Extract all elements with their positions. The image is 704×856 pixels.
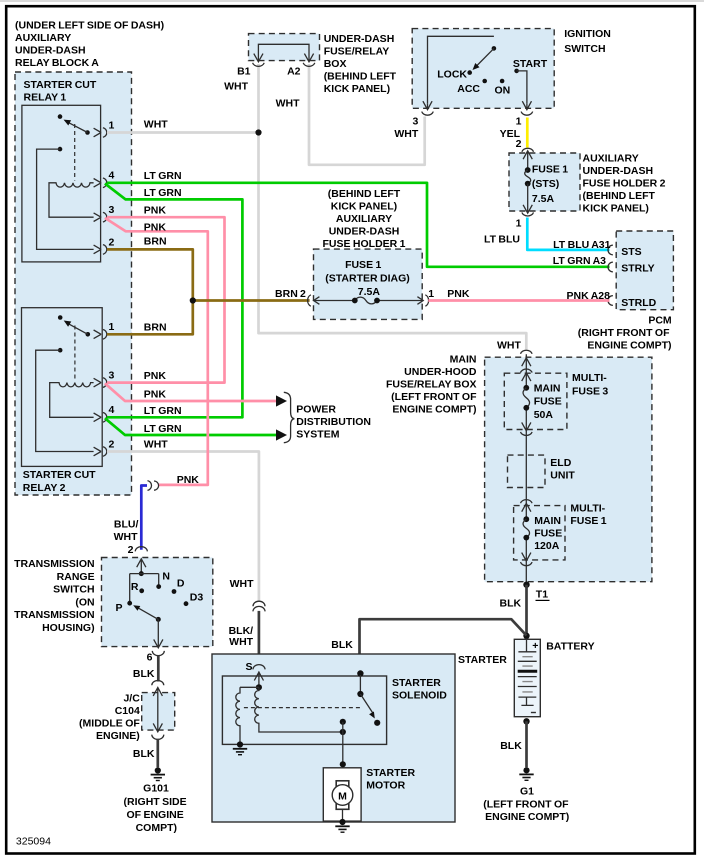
under-dash connector arcs B1 A2 (253, 63, 315, 67)
svg-text:STARTER CUT: STARTER CUT (23, 469, 96, 481)
svg-text:BLK: BLK (500, 598, 522, 610)
svg-text:STARTER: STARTER (366, 767, 415, 779)
PCM pin STRLY arc (608, 262, 613, 272)
transmission contact N (156, 584, 161, 589)
svg-text:PNK: PNK (144, 204, 167, 216)
svg-text:FUSE: FUSE (534, 396, 562, 408)
svg-text:TRANSMISSION: TRANSMISSION (14, 609, 95, 621)
svg-text:STRLD: STRLD (621, 297, 656, 309)
solenoid junction (256, 684, 262, 690)
ignition switch lever (477, 48, 494, 65)
svg-text:MAIN: MAIN (534, 515, 561, 527)
svg-text:BRN: BRN (144, 236, 167, 248)
svg-text:(BEHIND LEFT: (BEHIND LEFT (328, 188, 401, 200)
junction WHT (255, 129, 261, 135)
main fuse 120A symbol (523, 516, 529, 522)
svg-text:LT BLU: LT BLU (484, 233, 520, 245)
multi-fuse 3 entry arc + arrow (521, 369, 533, 381)
relay block A dashed box (15, 72, 132, 495)
svg-text:BRN: BRN (275, 288, 298, 300)
solenoid coil ground (237, 741, 243, 747)
svg-text:SWITCH: SWITCH (564, 43, 605, 55)
transmission contact D (172, 589, 177, 594)
svg-text:3: 3 (109, 370, 115, 382)
svg-text:ON: ON (495, 85, 511, 97)
fuse holder 2 exit arc (522, 212, 534, 216)
wire BLK/WHT connector to starter S (258, 611, 261, 665)
solenoid switch lever (360, 694, 372, 713)
starter motor brushes (336, 781, 349, 787)
transmission switch entry arrow (137, 559, 146, 574)
under-dash box arrows B1 A2 (254, 54, 314, 62)
svg-text:(RIGHT SIDE: (RIGHT SIDE (124, 796, 187, 808)
power distribution arrow LT GRN (276, 429, 287, 440)
relay K1 pin 2 (94, 245, 107, 255)
svg-text:STS: STS (621, 246, 641, 258)
wire BLK transmission to J/C (157, 656, 160, 682)
relay K2 mechanical link (74, 326, 76, 381)
svg-text:A2: A2 (287, 66, 301, 78)
fuse 1 (STS) 7.5A symbol (523, 151, 532, 170)
svg-text:ENGINE COMPT): ENGINE COMPT) (392, 404, 476, 416)
transmission switch common node (139, 571, 144, 576)
main fuse 50A symbol (523, 385, 529, 391)
svg-text:LT GRN: LT GRN (144, 405, 182, 417)
svg-text:G1: G1 (520, 786, 534, 798)
battery bottom junction (523, 718, 529, 724)
svg-text:J/C: J/C (123, 693, 140, 705)
power distribution brace (284, 392, 295, 442)
wire BLK T1 to battery (525, 585, 528, 636)
wire LT BLU fuse holder 2 to PCM STS (527, 218, 609, 250)
relay K1 pin 1 (94, 128, 107, 138)
svg-text:AUXILIARY: AUXILIARY (583, 152, 639, 164)
svg-text:PNK: PNK (447, 288, 470, 300)
wire PNK K1 pin3 to inline connector (105, 218, 208, 485)
svg-text:(BEHIND LEFT: (BEHIND LEFT (324, 70, 397, 82)
svg-text:FUSE/RELAY: FUSE/RELAY (324, 45, 390, 57)
svg-text:BLK: BLK (331, 639, 353, 651)
svg-text:PNK: PNK (144, 222, 167, 234)
svg-text:(STS): (STS) (532, 178, 559, 190)
relay K2 pin 3 (94, 378, 107, 388)
svg-text:BATTERY: BATTERY (546, 641, 594, 653)
svg-text:7.5A: 7.5A (532, 193, 555, 205)
junction connector J/C C104 (152, 681, 164, 686)
svg-text:OF ENGINE: OF ENGINE (126, 809, 183, 821)
main under-hood fuse/relay box (485, 357, 652, 582)
wire LT GRN K1 pin4 to K2 pin4 (105, 184, 243, 418)
svg-text:WHT: WHT (144, 118, 168, 130)
svg-text:7.5A: 7.5A (358, 286, 381, 298)
svg-text:STARTER: STARTER (458, 654, 507, 666)
starter motor box (323, 768, 361, 821)
svg-text:1: 1 (428, 288, 434, 300)
svg-text:UNDER-DASH: UNDER-DASH (583, 165, 654, 177)
relay K1 inner box (22, 105, 101, 262)
svg-text:MOTOR: MOTOR (366, 779, 405, 791)
battery (514, 639, 540, 716)
aux under-dash fuse holder 2 box (509, 153, 580, 211)
solenoid output contact (340, 719, 346, 725)
solenoid hold-in coil (255, 687, 343, 732)
svg-text:LOCK: LOCK (437, 68, 467, 80)
svg-text:ENGINE): ENGINE) (96, 730, 140, 742)
svg-text:ENGINE COMPT): ENGINE COMPT) (485, 811, 569, 823)
svg-text:IGNITION: IGNITION (564, 28, 611, 40)
svg-text:FUSE/RELAY BOX: FUSE/RELAY BOX (386, 379, 477, 391)
svg-text:HOUSING): HOUSING) (42, 622, 95, 634)
svg-text:LT GRN: LT GRN (144, 170, 182, 182)
aux under-dash fuse holder 1 box (314, 249, 423, 319)
ignition switch exit arrows (423, 101, 532, 109)
svg-text:WHT: WHT (497, 340, 521, 352)
ignition contact ACC (482, 79, 487, 84)
fuse 1 starter diag symbol (313, 300, 423, 302)
multi-fuse 1 exit arrow + arc (521, 553, 533, 566)
svg-text:RANGE: RANGE (57, 571, 95, 583)
svg-text:FUSE 1: FUSE 1 (345, 259, 381, 271)
fuse holder 2 entry arc (522, 148, 534, 152)
svg-text:4: 4 (109, 170, 115, 182)
svg-text:PNK: PNK (177, 474, 200, 486)
svg-text:AUXILIARY: AUXILIARY (15, 32, 71, 44)
svg-text:SYSTEM: SYSTEM (296, 428, 339, 440)
transmission contact R (139, 588, 144, 593)
svg-text:FUSE HOLDER 2: FUSE HOLDER 2 (583, 177, 666, 189)
svg-text:KICK PANEL): KICK PANEL) (324, 83, 390, 95)
svg-text:325094: 325094 (16, 836, 51, 848)
relay K2 inner box (22, 308, 103, 467)
svg-text:4: 4 (109, 404, 115, 416)
svg-text:BLK/: BLK/ (229, 625, 254, 637)
svg-text:G101: G101 (143, 783, 169, 795)
multi-fuse 3 box (504, 373, 567, 429)
starter solenoid box (222, 676, 386, 744)
ignition contact LOCK (467, 70, 472, 75)
solenoid switch top contact (357, 691, 363, 697)
relay K2 switch contact (58, 315, 63, 320)
svg-text:UNDER-DASH: UNDER-DASH (329, 226, 400, 238)
svg-text:WHT: WHT (230, 578, 254, 590)
wire BLK battery to G1 (525, 721, 528, 767)
svg-text:FUSE 1: FUSE 1 (570, 515, 606, 527)
svg-text:WHT: WHT (224, 80, 248, 92)
svg-text:MULTI-: MULTI- (572, 372, 607, 384)
ignition contact ON (500, 79, 505, 84)
relay K2 pin 1 (94, 330, 107, 340)
wire WHT A2 to ignition pin3 (309, 64, 425, 165)
main box entry arc (521, 350, 533, 354)
wire BLK J/C to G101 (156, 739, 159, 768)
svg-text:UNIT: UNIT (550, 470, 575, 482)
main box entry arrow (522, 358, 531, 366)
fuse holder 1 connector arcs (308, 295, 429, 306)
transmission switch exit (154, 619, 163, 647)
node T1 (523, 582, 529, 588)
solenoid contact feed junction (357, 670, 363, 676)
svg-text:UNDER-DASH: UNDER-DASH (324, 33, 395, 45)
relay K2 coil (50, 383, 94, 418)
svg-text:T1: T1 (536, 589, 548, 601)
svg-text:BOX: BOX (324, 58, 347, 70)
svg-text:1: 1 (109, 321, 115, 333)
svg-text:(ON: (ON (75, 596, 94, 608)
svg-text:DISTRIBUTION: DISTRIBUTION (296, 416, 371, 428)
ignition switch internal wire left (428, 36, 494, 104)
ground G1 (523, 767, 529, 773)
under-dash fuse/relay box (249, 34, 320, 61)
svg-text:POWER: POWER (296, 403, 336, 415)
svg-text:LT GRN A3: LT GRN A3 (553, 255, 606, 267)
svg-text:1: 1 (516, 217, 522, 229)
svg-text:2: 2 (300, 288, 306, 300)
svg-text:TRANSMISSION: TRANSMISSION (14, 558, 95, 570)
svg-text:MAIN: MAIN (534, 382, 561, 394)
starter motor feed junction (340, 761, 346, 767)
relay K2 contact to pin 2 wire (58, 348, 63, 353)
wire PNK K2 pin3 to power distribution (105, 383, 277, 401)
wire WHT K1 pin1 to junction (107, 131, 259, 134)
solenoid switch bottom contact (374, 720, 380, 726)
PCM pin STS arc (608, 245, 613, 255)
relay K1 pin 4 (94, 178, 107, 188)
svg-text:WHT: WHT (276, 97, 300, 109)
svg-text:MULTI-: MULTI- (570, 502, 605, 514)
starter motor ground (339, 819, 345, 825)
svg-text:FUSE: FUSE (534, 527, 562, 539)
wire BLU/WHT connector to transmission switch (141, 486, 147, 550)
svg-text:ACC: ACC (457, 83, 480, 95)
svg-text:PNK: PNK (144, 389, 167, 401)
relay K2 pin 2 (94, 447, 107, 457)
relay K1 contact to pin 2 wire (58, 147, 63, 152)
svg-text:D3: D3 (190, 591, 204, 603)
svg-text:R: R (131, 581, 139, 593)
wire WHT K2 pin2 down to connector (107, 452, 259, 602)
svg-text:LT GRN: LT GRN (144, 423, 182, 435)
multi-fuse 3 exit arrow + arc (521, 422, 533, 435)
svg-text:(MIDDLE OF: (MIDDLE OF (79, 718, 140, 730)
svg-text:WHT: WHT (144, 439, 168, 451)
PCM box (616, 231, 673, 310)
transmission switch lever (156, 617, 161, 622)
svg-text:RELAY BLOCK A: RELAY BLOCK A (15, 57, 99, 69)
relay K1 switch lever (85, 130, 90, 135)
relay K1 pin 3 (94, 212, 107, 222)
svg-text:PCM: PCM (648, 315, 672, 327)
svg-text:SWITCH: SWITCH (53, 584, 94, 596)
svg-text:(LEFT FRONT OF: (LEFT FRONT OF (483, 799, 569, 811)
multi-fuse 1 entry arc + arrow (521, 500, 533, 512)
svg-text:WHT: WHT (229, 636, 253, 648)
wire PNK K1 pin3 to K2 pin3 (107, 217, 225, 382)
svg-text:RELAY 2: RELAY 2 (23, 482, 66, 494)
svg-text:BLK: BLK (133, 668, 155, 680)
relay K1 mechanical link (74, 124, 76, 181)
solenoid pull-in coil (236, 687, 240, 744)
junction BRN (190, 297, 196, 303)
ignition switch box (412, 29, 554, 109)
svg-text:120A: 120A (534, 540, 560, 552)
ground G101 (155, 767, 161, 773)
svg-text:COMPT): COMPT) (136, 822, 177, 834)
svg-text:WHT: WHT (114, 531, 138, 543)
wire BLK battery to starter (360, 619, 527, 672)
svg-text:START: START (513, 58, 548, 70)
svg-text:BRN: BRN (144, 322, 167, 334)
wire WHT from B1 down to main fuse box (259, 64, 527, 350)
svg-text:BLK: BLK (133, 748, 155, 760)
ignition switch pivot (492, 46, 497, 51)
svg-text:BLU/: BLU/ (114, 518, 139, 530)
battery top junction (523, 633, 529, 639)
multi-fuse 1 box (514, 506, 565, 560)
svg-text:(BEHIND LEFT: (BEHIND LEFT (583, 190, 656, 202)
transmission range switch box (102, 558, 213, 647)
ELD unit box (508, 455, 546, 487)
svg-text:2: 2 (109, 438, 115, 450)
svg-text:KICK PANEL): KICK PANEL) (331, 201, 397, 213)
svg-text:KICK PANEL): KICK PANEL) (583, 202, 649, 214)
svg-text:(STARTER DIAG): (STARTER DIAG) (325, 273, 409, 285)
svg-text:WHT: WHT (394, 128, 418, 140)
svg-text:N: N (162, 571, 170, 583)
relay K2 pin 4 (94, 413, 107, 423)
svg-text:UNDER-HOOD: UNDER-HOOD (404, 366, 477, 378)
solenoid mechanical link (244, 707, 361, 709)
ignition switch internal wire right (517, 71, 527, 104)
svg-text:(RIGHT FRONT OF: (RIGHT FRONT OF (578, 327, 670, 339)
under-dash box internal wire (258, 44, 309, 59)
wire YEL ignition to fuse holder 2 (526, 118, 529, 148)
svg-text:P: P (115, 602, 122, 614)
svg-text:LT GRN: LT GRN (144, 187, 182, 199)
svg-text:FUSE 1: FUSE 1 (532, 163, 568, 175)
svg-text:3: 3 (109, 204, 115, 216)
ignition switch exit arcs (422, 112, 533, 116)
inline connector PNK/BLU (148, 481, 159, 491)
svg-text:1: 1 (109, 119, 115, 131)
ignition contact START (514, 69, 519, 74)
svg-text:2: 2 (516, 138, 522, 150)
wire BRN K1 pin2 to K2 pin1 (107, 249, 193, 334)
svg-text:2: 2 (109, 236, 115, 248)
svg-text:(UNDER LEFT SIDE OF DASH): (UNDER LEFT SIDE OF DASH) (15, 20, 164, 32)
svg-text:ELD: ELD (550, 457, 571, 469)
svg-text:STARTER: STARTER (392, 677, 441, 689)
svg-text:SOLENOID: SOLENOID (392, 690, 447, 702)
svg-text:BLK: BLK (500, 740, 522, 752)
wire LT GRN K1 pin4 to PCM STRLY (107, 183, 610, 267)
transmission contact P (127, 601, 132, 606)
svg-text:MAIN: MAIN (450, 354, 477, 366)
wire PNK fuse holder 1 to PCM STRLD (428, 299, 609, 302)
svg-text:6: 6 (147, 652, 153, 664)
transmission switch entry arc (135, 547, 147, 552)
svg-text:STARTER CUT: STARTER CUT (24, 79, 97, 91)
power distribution arrow PNK (276, 395, 287, 406)
svg-text:1: 1 (516, 115, 522, 127)
svg-text:LT BLU A31: LT BLU A31 (553, 239, 610, 251)
svg-text:C104: C104 (115, 705, 140, 717)
svg-text:FUSE 3: FUSE 3 (572, 385, 608, 397)
svg-text:D: D (177, 577, 185, 589)
starter box (212, 654, 455, 822)
main fuse string wire (525, 354, 527, 585)
svg-text:3: 3 (412, 115, 418, 127)
svg-text:STRLY: STRLY (621, 263, 654, 275)
transmission contact D3 (184, 601, 189, 606)
svg-text:B1: B1 (237, 66, 251, 78)
svg-text:UNDER-DASH: UNDER-DASH (15, 45, 86, 57)
svg-text:RELAY 1: RELAY 1 (24, 92, 67, 104)
svg-text:S: S (245, 661, 252, 673)
svg-text:+: + (532, 640, 538, 652)
svg-text:2: 2 (128, 544, 134, 556)
svg-text:FUSE HOLDER 1: FUSE HOLDER 1 (322, 238, 405, 250)
svg-text:AUXILIARY: AUXILIARY (336, 213, 392, 225)
svg-text:ENGINE COMPT): ENGINE COMPT) (587, 340, 671, 352)
top window edge (0, 0, 704, 2)
svg-text:50A: 50A (534, 409, 554, 421)
svg-text:PNK: PNK (144, 370, 167, 382)
relay K1 switch contact (58, 114, 63, 119)
svg-text:(LEFT FRONT OF: (LEFT FRONT OF (391, 391, 477, 403)
PCM pin STRLD arc (608, 296, 613, 306)
battery plates (518, 639, 537, 705)
wire BRN branch to fuse holder 1 (193, 299, 310, 302)
svg-text:M: M (338, 791, 347, 803)
wire LT GRN K2 pin4 to power distribution (105, 418, 277, 435)
relay K1 coil (49, 183, 94, 217)
starter motor M (332, 785, 353, 806)
relay K2 switch lever (86, 332, 91, 337)
